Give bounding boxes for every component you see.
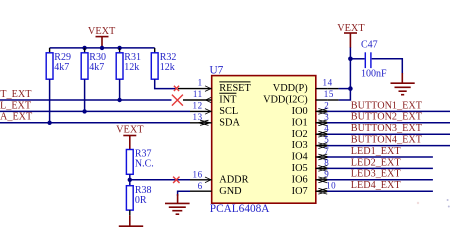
- svg-text:VDD(I2C): VDD(I2C): [263, 95, 308, 106]
- wire BUTTON3_EXT: [327, 133, 450, 135]
- svg-text:2: 2: [324, 101, 329, 111]
- power port VEXT (top-right): [337, 23, 365, 48]
- faint artifacts bottom right: [447, 199, 449, 201]
- wire BUTTON1_EXT: [327, 110, 450, 112]
- wire BUTTON2_EXT: [327, 122, 450, 124]
- no-ERC cross on INT wire: [172, 95, 183, 106]
- wire GND pin to ground: [178, 191, 190, 196]
- pin 4 IO2: [292, 123, 330, 140]
- pin 15 VDD(I2C): [263, 89, 334, 106]
- svg-text:9: 9: [324, 169, 329, 179]
- wire C47 to ground: [372, 59, 403, 74]
- svg-text:C47: C47: [361, 40, 378, 51]
- svg-text:IO7: IO7: [292, 186, 308, 197]
- svg-text:BUTTON4_EXT: BUTTON4_EXT: [351, 135, 423, 146]
- power port VEXT (middle): [116, 125, 144, 150]
- svg-text:4k7: 4k7: [54, 62, 69, 73]
- svg-text:7: 7: [324, 146, 329, 156]
- no-ERC marker on ADDR wire: [173, 177, 179, 183]
- junction R37/R38/ADDR: [128, 178, 132, 182]
- svg-text:IO2: IO2: [292, 129, 308, 140]
- svg-text:T_EXT: T_EXT: [0, 89, 32, 100]
- wire R29 to SDA bus: [49, 79, 51, 123]
- power port VEXT (top-left): [88, 26, 116, 48]
- svg-text:VEXT: VEXT: [337, 23, 365, 34]
- svg-text:N.C.: N.C.: [135, 159, 154, 170]
- resistor R38: [126, 185, 151, 210]
- svg-text:12: 12: [192, 101, 202, 111]
- svg-text:LED4_EXT: LED4_EXT: [351, 180, 402, 191]
- svg-text:3: 3: [324, 112, 329, 122]
- svg-text:1: 1: [198, 78, 203, 88]
- svg-text:VEXT: VEXT: [88, 26, 116, 37]
- ground symbol near pin 6: [165, 194, 190, 214]
- pin 6 GND: [190, 181, 242, 197]
- wire SCL_EXT bus: [0, 110, 190, 112]
- junction C47/VEXT: [348, 57, 353, 62]
- svg-text:BUTTON2_EXT: BUTTON2_EXT: [351, 112, 423, 123]
- pin 12 SCL: [190, 101, 238, 118]
- pin 2 IO0: [292, 101, 329, 118]
- junction R30/SCL_EXT: [82, 109, 86, 113]
- svg-text:ADDR: ADDR: [219, 174, 248, 185]
- junction rail/R31: [117, 46, 121, 50]
- svg-text:5: 5: [324, 135, 329, 145]
- junction rail/VEXT: [100, 46, 104, 50]
- resistor R29: [46, 48, 71, 79]
- pin 10 IO7: [292, 180, 337, 197]
- wire BUTTON4_EXT: [327, 145, 450, 147]
- svg-text:LED2_EXT: LED2_EXT: [351, 157, 402, 168]
- pin 3 IO1: [292, 112, 330, 128]
- pin 1 RESET: [178, 78, 251, 95]
- junction R31/INT_EXT: [117, 98, 121, 102]
- svg-text:A_EXT: A_EXT: [0, 112, 33, 123]
- pin 5 IO3: [292, 135, 330, 152]
- resistor R30: [81, 48, 106, 79]
- pin 14 VDD(P): [273, 78, 333, 95]
- junction R29/SDA_EXT: [47, 121, 51, 125]
- svg-text:U7: U7: [210, 65, 224, 77]
- wire R31 to INT bus: [119, 79, 121, 100]
- svg-text:15: 15: [324, 89, 334, 99]
- svg-text:0R: 0R: [135, 195, 147, 206]
- wire junction to ADDR pin: [130, 179, 190, 181]
- svg-text:GND: GND: [219, 186, 242, 197]
- no-ERC marker on RESET wire: [174, 86, 179, 91]
- svg-text:13: 13: [192, 112, 202, 122]
- wire VEXT rail top-left: [50, 47, 155, 49]
- svg-text:12k: 12k: [124, 62, 139, 73]
- svg-text:VDD(P): VDD(P): [273, 83, 308, 94]
- pin 9 IO6: [292, 169, 330, 186]
- ground symbol near C47: [391, 73, 415, 95]
- svg-text:IO3: IO3: [292, 140, 308, 151]
- svg-text:16: 16: [192, 170, 202, 180]
- pin 16 ADDR: [190, 170, 249, 186]
- junction VDD(P)/VEXT: [348, 86, 353, 91]
- svg-text:11: 11: [193, 89, 203, 99]
- svg-text:VEXT: VEXT: [116, 125, 144, 136]
- junction rail/R30: [82, 46, 86, 50]
- wire R32 to RESET pin: [155, 79, 176, 88]
- svg-text:100nF: 100nF: [361, 68, 387, 79]
- svg-text:8: 8: [324, 158, 329, 168]
- svg-text:6: 6: [198, 181, 203, 191]
- svg-text:L_EXT: L_EXT: [0, 100, 32, 111]
- pin 7 IO4: [292, 146, 330, 163]
- wire INT_EXT bus: [0, 99, 172, 101]
- wire VDD pins to VEXT: [327, 47, 350, 100]
- svg-text:PCAL6408A: PCAL6408A: [210, 203, 270, 215]
- svg-text:14: 14: [323, 78, 333, 88]
- svg-text:SDA: SDA: [219, 117, 240, 128]
- pin 13 SDA: [190, 112, 240, 128]
- svg-text:RESET: RESET: [219, 83, 251, 94]
- svg-text:BUTTON3_EXT: BUTTON3_EXT: [351, 123, 423, 134]
- wire LED1_EXT: [327, 156, 433, 158]
- wire SDA_EXT bus: [0, 122, 190, 124]
- svg-text:IO4: IO4: [292, 152, 308, 163]
- svg-text:IO1: IO1: [292, 117, 308, 128]
- svg-text:BUTTON1_EXT: BUTTON1_EXT: [351, 100, 423, 111]
- resistor R37: [126, 149, 153, 175]
- power port GND bar below R38: [119, 210, 143, 226]
- svg-text:SCL: SCL: [219, 106, 238, 117]
- resistor R32: [151, 48, 176, 79]
- svg-text:IO0: IO0: [292, 106, 308, 117]
- pin 11 INT: [183, 89, 237, 106]
- wire LED2_EXT: [327, 167, 433, 169]
- wire R37 to R38: [129, 174, 131, 185]
- svg-text:4: 4: [324, 123, 329, 133]
- svg-text:LED3_EXT: LED3_EXT: [351, 169, 402, 180]
- IC U7 PCAL6408A body: [212, 76, 316, 204]
- wire LED3_EXT: [327, 179, 433, 181]
- svg-text:4k7: 4k7: [89, 62, 104, 73]
- svg-text:12k: 12k: [160, 62, 175, 73]
- pin 8 IO5: [292, 158, 330, 175]
- svg-text:10: 10: [326, 180, 336, 190]
- wire LED4_EXT: [327, 190, 433, 192]
- svg-text:INT: INT: [219, 95, 237, 106]
- svg-text:IO6: IO6: [292, 174, 308, 185]
- svg-text:IO5: IO5: [292, 163, 308, 174]
- capacitor C47: [350, 40, 387, 80]
- svg-text:LED1_EXT: LED1_EXT: [351, 146, 402, 157]
- wire R30 to SCL bus: [84, 79, 86, 111]
- resistor R31: [116, 48, 141, 79]
